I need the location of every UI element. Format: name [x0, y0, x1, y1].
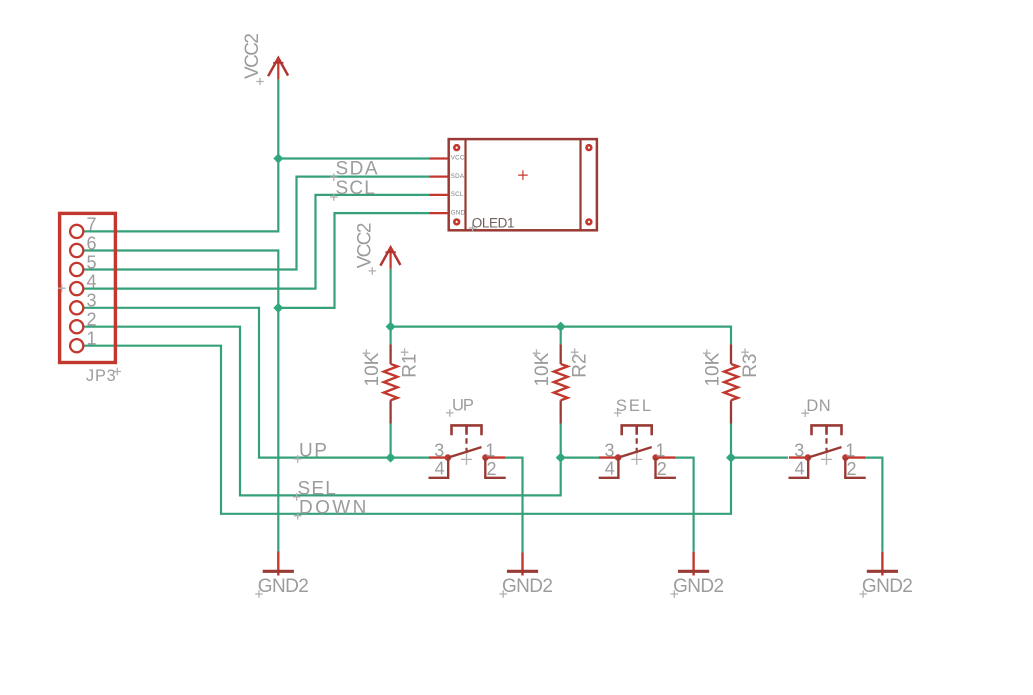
- svg-text:R3: R3: [740, 354, 761, 378]
- connector JP3 body: [60, 213, 116, 362]
- wire net GND2: JP3 pin 6 down to ground: [83, 251, 278, 552]
- wire net SEL: JP3 pin 2 riser to R2 junction: [83, 327, 561, 496]
- junction SEL row at R2 bottom: [556, 453, 566, 463]
- svg-text:VCC: VCC: [451, 155, 465, 162]
- ground GND2 (below DN switch): [859, 552, 912, 598]
- name label OLED1: [469, 215, 514, 232]
- switch DN actuator: [812, 425, 842, 455]
- JP3 pin 1 pad: [70, 339, 83, 352]
- svg-text:SDA: SDA: [336, 159, 380, 180]
- svg-text:2: 2: [487, 459, 497, 479]
- svg-text:VCC2: VCC2: [242, 34, 263, 79]
- JP3 origin cross (pin 4): [58, 284, 66, 292]
- name label R3: [740, 348, 761, 377]
- ground GND2 (below UP switch): [499, 553, 552, 598]
- label net SCL: [330, 178, 376, 201]
- svg-text:GND: GND: [451, 209, 466, 216]
- svg-text:GND2: GND2: [258, 576, 308, 597]
- OLED1 mounting pad top-right: [585, 144, 592, 151]
- svg-text:2: 2: [657, 459, 667, 479]
- JP3 pin 3 pad: [70, 301, 83, 314]
- switch UP origin cross: [461, 454, 472, 465]
- wire DOWN junction to DN switch pin 3: [731, 457, 788, 459]
- label net SEL: [293, 478, 337, 500]
- OLED1 inner dividers: [466, 139, 581, 230]
- value label 10K (R1): [362, 349, 383, 386]
- power symbol VCC2 (top): [268, 58, 288, 79]
- wire net VCC2: middle power symbol to pull-up rail: [391, 269, 731, 344]
- switch UP pin 4 lead: [429, 458, 449, 478]
- svg-text:SCL: SCL: [451, 191, 464, 198]
- label net SDA: [330, 159, 379, 181]
- svg-text:DN: DN: [806, 397, 831, 415]
- svg-text:SEL: SEL: [298, 478, 338, 499]
- ground GND2 (left, JP3 net): [255, 552, 308, 598]
- wire net GND2: branch to OLED1 GND pin: [278, 213, 429, 308]
- OLED1 pin stub VCC: [430, 157, 449, 159]
- label VCC2 (middle): [354, 223, 376, 275]
- svg-text:GND2: GND2: [502, 576, 552, 597]
- JP3 pin 2 pad: [70, 320, 83, 333]
- switch UP pin 1 lead: [482, 454, 505, 461]
- svg-text:4: 4: [435, 459, 445, 479]
- svg-text:DOWN: DOWN: [299, 497, 369, 518]
- wire net SDA: JP3 pin 5 to OLED1 SDA pin: [83, 177, 430, 270]
- OLED1 mounting pad bottom-right: [585, 218, 592, 225]
- switch SEL actuator: [622, 425, 652, 455]
- svg-text:SDA: SDA: [451, 173, 465, 180]
- svg-text:SCL: SCL: [336, 178, 376, 199]
- wire net VCC2: to OLED1 VCC pin: [278, 157, 429, 159]
- switch SEL pin 2 lead: [656, 458, 676, 478]
- svg-text:2: 2: [87, 310, 97, 330]
- svg-text:6: 6: [87, 233, 97, 253]
- switch SEL contact arm: [618, 447, 652, 458]
- JP3 pin 7 pad: [70, 225, 83, 238]
- svg-text:3: 3: [434, 440, 444, 460]
- OLED1 mounting pad bottom-left: [453, 218, 460, 225]
- OLED1 pin stub GND: [430, 212, 449, 214]
- svg-text:5: 5: [87, 252, 97, 272]
- svg-text:1: 1: [845, 440, 855, 460]
- svg-text:7: 7: [87, 214, 97, 234]
- wire net VCC2: top power symbol down to JP3 pin 7: [83, 79, 278, 231]
- svg-text:VCC2: VCC2: [354, 223, 375, 268]
- wire net UP: JP3 pin 3 to UP switch row: [83, 308, 429, 458]
- ground GND2 (below SEL switch): [671, 552, 724, 598]
- wire R1 bottom lead: [390, 424, 392, 458]
- switch UP pin 3 lead: [429, 454, 451, 461]
- svg-text:R2: R2: [570, 354, 591, 378]
- junction UP row at R1 bottom: [386, 453, 396, 463]
- label VCC2 (top): [242, 34, 264, 86]
- svg-text:4: 4: [795, 459, 805, 479]
- switch DN pin 2 lead: [845, 458, 865, 478]
- OLED1 mounting pad top-left: [453, 144, 460, 151]
- wire R1 top lead: [390, 327, 392, 345]
- resistor R2: [554, 344, 568, 423]
- switch UP pin 2 lead: [485, 458, 505, 478]
- label net DOWN: [294, 497, 369, 519]
- junction DOWN row at R3 bottom: [726, 453, 736, 463]
- svg-text:OLED1: OLED1: [472, 215, 514, 230]
- label net UP: [294, 441, 329, 463]
- switch SEL pin 1 lead: [652, 454, 675, 461]
- wire R2 bottom lead: [560, 424, 562, 458]
- switch UP contact arm: [448, 447, 482, 458]
- name label JP3: [86, 367, 121, 385]
- wire SEL junction to SEL switch pin 3: [561, 457, 600, 459]
- svg-text:GND2: GND2: [862, 576, 912, 597]
- svg-text:GND2: GND2: [673, 576, 723, 597]
- label SEL (switch name): [614, 397, 653, 417]
- switch DN pin 4 lead: [789, 458, 809, 478]
- switch DN pin 1 lead: [842, 454, 865, 461]
- svg-text:10K: 10K: [362, 352, 383, 386]
- svg-text:3: 3: [794, 440, 804, 460]
- svg-text:10K: 10K: [702, 352, 723, 386]
- name label R1: [400, 348, 421, 377]
- wire R2 top lead: [560, 327, 562, 345]
- svg-text:1: 1: [485, 440, 495, 460]
- junction net VCC2 at OLED branch: [273, 154, 283, 164]
- wire R3 bottom lead: [730, 424, 732, 458]
- name label R2: [570, 348, 591, 377]
- svg-text:UP: UP: [299, 441, 328, 462]
- junction net GND2 at OLED branch: [273, 303, 283, 313]
- svg-text:2: 2: [847, 459, 857, 479]
- svg-text:4: 4: [605, 459, 615, 479]
- OLED1 pin stub SDA: [430, 175, 449, 177]
- wire SEL switch pin 1 to ground: [675, 458, 694, 552]
- junction rail at R2 top: [556, 322, 566, 332]
- wire UP switch pin 1 to ground: [505, 458, 523, 553]
- svg-text:UP: UP: [452, 397, 474, 415]
- svg-text:R1: R1: [400, 354, 421, 378]
- svg-text:10K: 10K: [532, 352, 553, 386]
- JP3 pin 6 pad: [70, 244, 83, 257]
- svg-text:4: 4: [87, 272, 97, 292]
- svg-text:SEL: SEL: [616, 397, 653, 415]
- switch SEL pin 3 lead: [599, 454, 621, 461]
- junction rail at R1 top: [386, 322, 396, 332]
- switch SEL origin cross: [631, 454, 642, 465]
- svg-text:1: 1: [655, 440, 665, 460]
- svg-text:1: 1: [87, 329, 97, 349]
- wire net SCL: JP3 pin 4 to OLED1 SCL pin: [83, 195, 430, 289]
- OLED1 pin stub SCL: [430, 194, 449, 196]
- value label 10K (R3): [702, 349, 723, 386]
- svg-text:3: 3: [87, 291, 97, 311]
- svg-text:JP3: JP3: [86, 367, 116, 385]
- JP3 pin 5 pad: [70, 263, 83, 276]
- wire net DOWN: JP3 pin 1 riser to R3 junction: [83, 346, 731, 514]
- switch SEL pin 4 lead: [599, 458, 619, 478]
- module OLED1 outline: [449, 139, 597, 230]
- resistor R3: [724, 344, 738, 423]
- switch DN contact arm: [808, 447, 842, 458]
- OLED1 center origin cross: [518, 170, 528, 180]
- wire DN switch pin 1 to ground: [863, 458, 882, 552]
- switch UP actuator: [452, 425, 482, 455]
- svg-text:3: 3: [604, 440, 614, 460]
- JP3 pin 4 pad: [70, 282, 83, 295]
- power symbol VCC2 (middle): [380, 247, 400, 268]
- value label 10K (R2): [532, 349, 553, 386]
- switch DN pin 3 lead: [789, 454, 811, 461]
- switch DN origin cross: [821, 454, 832, 465]
- label DN (switch name): [801, 397, 831, 417]
- resistor R1: [384, 344, 398, 423]
- label UP (switch name): [446, 397, 474, 417]
